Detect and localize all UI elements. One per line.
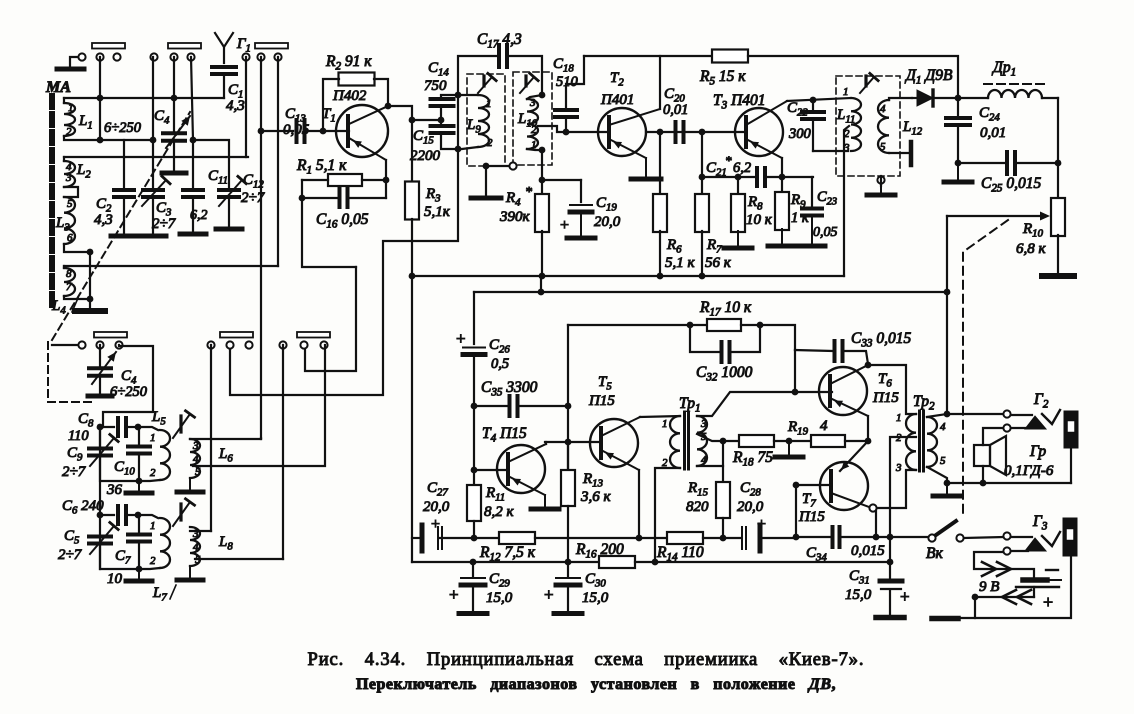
svg-text:Д1 Д9В: Д1 Д9В — [904, 67, 953, 87]
wire T6 coll to Tr2 — [868, 365, 916, 414]
switch contact — [150, 53, 157, 60]
wire to speaker — [983, 428, 1003, 445]
svg-text:T4 П15: T4 П15 — [482, 425, 527, 445]
junction — [652, 559, 659, 566]
wire switch to C13 — [260, 57, 262, 438]
wire wiper down — [946, 216, 948, 292]
svg-text:C4: C4 — [154, 108, 170, 127]
junction — [539, 147, 546, 154]
svg-text:П15: П15 — [798, 509, 825, 525]
svg-text:П15: П15 — [872, 390, 899, 406]
junction — [97, 95, 104, 102]
wire T4 base — [474, 469, 508, 471]
dashed box L9 — [467, 74, 505, 166]
svg-text:5: 5 — [880, 141, 886, 153]
svg-text:R7: R7 — [706, 237, 722, 256]
svg-text:390к: 390к — [499, 209, 531, 225]
svg-text:20,0: 20,0 — [423, 499, 450, 515]
T3 collector — [746, 101, 787, 125]
wire to dashed link — [52, 344, 78, 346]
svg-text:C14: C14 — [428, 60, 449, 79]
svg-text:Г3: Г3 — [1032, 513, 1048, 533]
junction — [471, 467, 478, 474]
switch section bar S2c — [297, 332, 330, 338]
svg-text:T7: T7 — [802, 491, 816, 510]
capacitor C8 — [100, 426, 114, 428]
jack G2 ring contact — [1003, 424, 1010, 431]
wire to C19 — [542, 179, 581, 181]
wire L6 tap — [193, 345, 325, 466]
junction — [636, 535, 643, 542]
svg-text:+: + — [1043, 592, 1053, 612]
svg-text:110: 110 — [68, 428, 89, 444]
svg-text:C19: C19 — [596, 195, 617, 214]
svg-text:R19: R19 — [787, 419, 809, 438]
capacitor C16 — [338, 189, 342, 207]
wire C12 to chassis — [228, 197, 230, 228]
junction — [955, 160, 962, 167]
wire C25 row — [958, 162, 1004, 164]
potentiometer R10 — [1057, 163, 1059, 199]
svg-text:C28: C28 — [740, 480, 761, 499]
resistor R17 — [690, 324, 707, 326]
wire Tr2 pin5 — [927, 467, 947, 483]
resistor R3 — [411, 120, 413, 182]
wire C2 to chassis — [123, 197, 125, 235]
contact under box — [877, 176, 884, 183]
wire speaker return — [947, 482, 1071, 484]
wire oscillator feedback — [230, 149, 458, 395]
junction — [793, 482, 800, 489]
resistor R11 — [473, 470, 475, 485]
coil Tr1 secondary — [697, 416, 707, 466]
transistor T3 — [735, 108, 783, 156]
coil L5 — [138, 427, 158, 430]
svg-text:T3 П401: T3 П401 — [713, 92, 766, 112]
diode D1 D9V — [912, 97, 917, 99]
svg-text:2÷7: 2÷7 — [62, 464, 87, 480]
switch section bar S1b — [168, 43, 201, 49]
capacitor C30 — [567, 562, 569, 577]
junction — [944, 480, 951, 487]
capacitor C27 — [420, 525, 425, 551]
core arrow L8 — [173, 502, 190, 526]
junction — [865, 438, 872, 445]
switch contact — [274, 53, 281, 60]
junction — [87, 296, 94, 303]
ground C24 — [957, 163, 959, 182]
wire L11 tap to bus — [844, 126, 849, 276]
junction — [865, 362, 872, 369]
svg-text:+: + — [431, 516, 440, 533]
svg-text:C23: C23 — [817, 189, 837, 208]
svg-text:820: 820 — [686, 499, 709, 515]
ground L5 — [138, 481, 140, 493]
switch section bar S2b — [220, 332, 253, 338]
svg-text:C35 3300: C35 3300 — [481, 379, 538, 399]
svg-text:2÷7: 2÷7 — [58, 547, 83, 563]
wire C9 bottom — [100, 456, 136, 481]
antenna G1 — [215, 33, 233, 47]
junction — [944, 411, 951, 418]
svg-text:R8: R8 — [747, 194, 763, 213]
wire speaker bottom — [982, 466, 984, 483]
wire switch S2b-1 to L8 — [210, 345, 212, 531]
T2 collector — [609, 109, 660, 125]
wire C3 to chassis — [152, 197, 154, 235]
svg-text:4: 4 — [193, 541, 199, 553]
contact T7 coll — [869, 504, 876, 511]
wire switch to C11 — [191, 57, 193, 189]
transistor T6 — [819, 367, 867, 415]
coil L3 — [64, 197, 75, 244]
resistor R19 — [789, 440, 811, 442]
wire bus to C33 — [760, 325, 795, 350]
resistor R2 — [339, 73, 375, 86]
wire switch S2c-1 to L8 — [282, 345, 284, 559]
wire Tr2 pin4 — [927, 414, 947, 417]
wire L10 tap to T2 base — [538, 126, 609, 132]
svg-text:C5: C5 — [64, 528, 80, 547]
resistor R12 — [474, 537, 499, 539]
speaker Gr — [974, 445, 990, 466]
junction — [258, 128, 265, 135]
svg-text:C27: C27 — [427, 480, 448, 499]
capacitor C25 — [1005, 152, 1009, 174]
wire C17 right — [510, 56, 542, 95]
svg-text:C18: C18 — [553, 56, 574, 75]
junction — [455, 146, 462, 153]
wire C11 to chassis — [192, 197, 194, 233]
core arrow L5 — [173, 414, 190, 438]
T5 emitter — [601, 450, 639, 470]
svg-text:9 В: 9 В — [979, 579, 999, 595]
junction — [150, 137, 157, 144]
junction — [385, 103, 392, 110]
trimmer C5 — [89, 535, 111, 539]
svg-text:510: 510 — [556, 74, 579, 90]
jack G2 tip contact — [1003, 410, 1010, 417]
wire T7 coll to Tr2 — [877, 470, 916, 508]
jack G3 ring contact — [1003, 547, 1010, 554]
junction — [779, 174, 786, 181]
wire battery return left — [957, 597, 975, 618]
wire switch to bus y157 — [245, 57, 247, 157]
wire C17 left — [458, 56, 496, 95]
svg-text:2: 2 — [531, 124, 537, 136]
svg-text:3: 3 — [529, 97, 536, 109]
junction — [720, 535, 727, 542]
svg-text:6÷250: 6÷250 — [104, 120, 142, 136]
svg-text:R3: R3 — [425, 186, 441, 205]
svg-text:6,2: 6,2 — [733, 160, 751, 176]
switch contact — [187, 53, 194, 60]
choke Dr1 — [958, 97, 988, 99]
junction — [455, 92, 462, 99]
switch contact — [78, 341, 85, 348]
wire T4 base col — [473, 406, 475, 470]
wire switch to C3 — [152, 57, 154, 189]
wire C4 rotor — [173, 141, 175, 172]
junction — [563, 129, 570, 136]
svg-text:2: 2 — [150, 467, 156, 479]
junction — [135, 512, 142, 519]
svg-text:R4: R4 — [505, 190, 521, 209]
svg-text:R1 5,1 к: R1 5,1 к — [296, 157, 347, 177]
svg-text:Рис. 4.34. Принципиальная схем: Рис. 4.34. Принципиальная схема приемиик… — [308, 650, 865, 670]
junction — [539, 177, 546, 184]
svg-text:C11: C11 — [208, 168, 228, 187]
wire bus y266 — [64, 265, 278, 267]
wire bus y157 — [64, 156, 248, 158]
svg-text:4: 4 — [820, 418, 828, 434]
svg-text:5,1к: 5,1к — [424, 204, 451, 220]
wire T3 collector bus — [787, 98, 851, 101]
svg-text:6: 6 — [67, 232, 73, 244]
junction — [299, 195, 306, 202]
svg-text:L6: L6 — [218, 446, 233, 465]
svg-text:36: 36 — [106, 482, 123, 498]
junction — [699, 174, 706, 181]
battery chevrons in — [982, 562, 1011, 576]
svg-text:4,3: 4,3 — [226, 98, 245, 114]
capacitor C35 — [508, 396, 512, 416]
svg-text:1: 1 — [531, 139, 537, 151]
wire row538 left — [412, 537, 420, 539]
wire C5 bottom — [100, 544, 136, 569]
junction — [135, 424, 142, 431]
svg-text:C30: C30 — [585, 571, 606, 590]
svg-text:300: 300 — [788, 126, 812, 142]
svg-text:R12 7,5 к: R12 7,5 к — [479, 544, 536, 564]
svg-text:R17 10 к: R17 10 к — [699, 299, 752, 319]
coil L2 — [64, 161, 75, 187]
junction — [720, 438, 727, 445]
resistor R4 — [535, 194, 549, 232]
battery 9V — [1023, 577, 1047, 583]
ferrite rod (dashed, magnetic antenna MA) — [49, 96, 55, 305]
wire switch to L1 bottom — [99, 57, 101, 140]
svg-text:0,015: 0,015 — [851, 543, 885, 559]
wire C33 row — [795, 350, 832, 351]
svg-text:1: 1 — [150, 520, 156, 532]
switch contact — [96, 341, 103, 348]
switch contact — [300, 341, 307, 348]
junction — [565, 439, 572, 446]
resistor R14 — [639, 537, 667, 539]
svg-text:R14 110: R14 110 — [656, 544, 704, 564]
resistor R16 — [599, 556, 635, 568]
svg-text:2: 2 — [150, 555, 156, 567]
svg-text:C24: C24 — [979, 105, 1000, 124]
svg-text:L3: L3 — [55, 215, 70, 234]
capacitor C24 — [957, 98, 959, 118]
junction — [887, 559, 894, 566]
wire battery return — [975, 557, 1071, 618]
wire L9 left vertical — [457, 95, 459, 149]
T7 collector — [831, 493, 869, 507]
svg-text:20,0: 20,0 — [737, 499, 764, 515]
jack G2 plug — [1011, 414, 1032, 416]
dashed box L10 — [513, 72, 552, 165]
coil L11 — [851, 98, 861, 151]
svg-text:6,2: 6,2 — [190, 208, 208, 223]
svg-text:C25 0,015: C25 0,015 — [981, 175, 1042, 195]
capacitor C13 — [295, 120, 299, 142]
junction — [471, 535, 478, 542]
capacitor C20 — [674, 122, 678, 142]
dashed box L11/L12 — [836, 76, 900, 176]
coil L6 — [190, 439, 200, 478]
coil L12 — [878, 100, 889, 153]
svg-text:3,6 к: 3,6 к — [580, 489, 612, 505]
T1 collector — [349, 106, 388, 124]
wire riser C28/T7base — [795, 485, 797, 537]
switch contact — [257, 53, 264, 60]
svg-text:10 к: 10 к — [746, 212, 773, 228]
wire L9 bottom stem — [485, 166, 487, 197]
junction — [409, 273, 416, 280]
svg-text:5: 5 — [195, 466, 201, 478]
svg-text:4: 4 — [880, 103, 886, 115]
variable capacitor C4 — [173, 57, 175, 133]
svg-text:МА: МА — [45, 79, 71, 96]
junction — [980, 480, 987, 487]
switch contact — [242, 53, 249, 60]
transistor T2 — [598, 108, 646, 156]
svg-text:C29: C29 — [489, 571, 510, 590]
resistor R8 — [737, 177, 739, 195]
wire C35 row — [474, 405, 507, 407]
svg-text:10: 10 — [107, 571, 123, 587]
capacitor C31 — [889, 537, 891, 578]
junction — [687, 322, 694, 329]
switch contact — [279, 341, 286, 348]
transistor T7 — [820, 462, 868, 510]
dashed volume-switch link — [963, 220, 1008, 516]
svg-text:T2: T2 — [610, 70, 624, 89]
wire left node down — [302, 180, 356, 267]
svg-text:*: * — [725, 153, 732, 168]
svg-text:R15: R15 — [687, 480, 709, 499]
wire C16 right — [348, 197, 387, 199]
svg-text:C6 240: C6 240 — [62, 498, 104, 517]
wire bus y276 — [412, 275, 844, 277]
wire x356 down — [305, 267, 356, 371]
svg-text:C16 0,05: C16 0,05 — [316, 211, 369, 231]
wire R4 node stub — [540, 276, 542, 292]
wire osc loop — [103, 345, 153, 427]
svg-text:L8: L8 — [218, 534, 233, 553]
svg-text:T6: T6 — [878, 371, 892, 390]
svg-text:6,8 к: 6,8 к — [1016, 241, 1047, 257]
svg-text:L1: L1 — [78, 113, 93, 132]
ground L7 — [138, 569, 140, 581]
coil L1 — [63, 98, 65, 103]
capacitor C32 — [690, 325, 719, 352]
core arrow L11 — [860, 77, 874, 93]
wire Tr1 prim bottom — [655, 468, 680, 562]
wire C1 to bus — [223, 74, 225, 98]
jack G3 sleeve — [1063, 518, 1077, 556]
junction — [438, 117, 445, 124]
svg-text:0,05: 0,05 — [283, 122, 310, 138]
svg-text:C10: C10 — [114, 459, 135, 478]
wire to C14/C15 node — [412, 119, 441, 121]
wire top bus y57 — [584, 55, 712, 57]
capacitor C23 — [811, 177, 813, 208]
svg-text:L7: L7 — [152, 585, 167, 604]
capacitor C34 — [840, 536, 890, 538]
junction — [955, 95, 962, 102]
svg-text:1: 1 — [662, 418, 668, 430]
Tr1 core — [683, 412, 686, 469]
svg-text:Гр: Гр — [1029, 443, 1046, 460]
svg-text:4,3: 4,3 — [94, 212, 113, 228]
svg-text:+: + — [449, 585, 459, 604]
svg-text:0,1ГД-6: 0,1ГД-6 — [1004, 463, 1054, 479]
svg-text:56 к: 56 к — [705, 255, 732, 271]
wire L2-L3 — [64, 187, 78, 197]
junction — [565, 403, 572, 410]
wire y325 bus — [568, 324, 690, 326]
ground — [471, 196, 501, 201]
resistor R13 — [567, 442, 569, 470]
wire to switch Vk — [890, 536, 928, 538]
svg-text:+: + — [900, 587, 910, 606]
svg-text:Др1: Др1 — [991, 59, 1016, 79]
wire C16 left — [302, 197, 340, 199]
T4 collector — [508, 444, 546, 462]
svg-text:L5: L5 — [151, 409, 166, 428]
wire C15 bottom — [441, 133, 458, 149]
svg-text:C22: C22 — [787, 100, 808, 119]
resistor R1 — [328, 174, 362, 186]
svg-text:L9: L9 — [466, 117, 481, 136]
junction — [699, 129, 706, 136]
svg-text:0,01: 0,01 — [980, 125, 1006, 141]
junction — [136, 478, 143, 485]
wire R2 left to base — [323, 79, 339, 131]
svg-text:R6: R6 — [666, 237, 682, 256]
capacitor C11 — [183, 188, 203, 192]
wire switch to L6 pin3 — [260, 438, 262, 439]
junction — [97, 424, 104, 431]
svg-text:Вк: Вк — [926, 545, 943, 562]
wire T5 coll to Tr1 — [640, 416, 680, 417]
resistor R5 — [712, 50, 748, 63]
wire Tr1 pin3 to T6 base — [697, 392, 795, 416]
switch section bar S1c — [255, 43, 288, 49]
capacitor C29 — [472, 562, 474, 577]
svg-text:C31: C31 — [849, 568, 870, 587]
wire C14/C15 mid — [440, 106, 442, 126]
MA contact wire — [70, 57, 78, 67]
svg-text:L12: L12 — [902, 119, 923, 138]
wire R1 right — [362, 179, 386, 181]
capacitor C33 — [833, 341, 837, 361]
wire R4 bottom — [541, 231, 543, 276]
svg-text:C21: C21 — [706, 160, 727, 179]
svg-text:+: + — [757, 516, 766, 533]
wire C33 right — [842, 351, 868, 364]
junction — [383, 177, 390, 184]
svg-text:C32 1000: C32 1000 — [696, 364, 753, 384]
capacitor C28 — [723, 537, 740, 539]
svg-text:R5 15 к: R5 15 к — [699, 68, 746, 88]
svg-text:C7: C7 — [115, 548, 131, 567]
junction — [972, 594, 979, 601]
